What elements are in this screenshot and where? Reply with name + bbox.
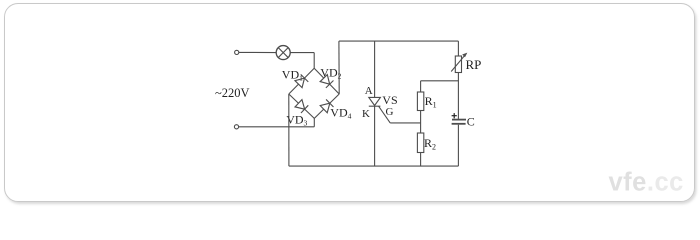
label R2 xyxy=(424,136,436,152)
wire: lamp to bridge top vertex xyxy=(290,53,314,69)
label VD4 xyxy=(330,105,351,120)
terminal: AC input bottom xyxy=(234,125,238,129)
terminal: AC input top xyxy=(235,50,239,54)
wire: gate to R1/R2 junction xyxy=(390,122,420,124)
label VD3 xyxy=(286,112,307,127)
wire: RP bottom to C top xyxy=(457,73,459,119)
wire: bridge bottom vertex stub xyxy=(313,118,315,126)
resistor R2 xyxy=(417,133,423,153)
label K (cathode) xyxy=(362,108,370,120)
wire: R1 top lead xyxy=(420,81,422,92)
wire: bottom terminal to bridge bottom vertex xyxy=(239,126,315,128)
diode VD1 (bridge left-top arm) xyxy=(289,68,314,94)
label C xyxy=(467,115,475,129)
label RP xyxy=(466,57,482,72)
thyristor VS xyxy=(369,97,390,123)
label VS xyxy=(382,93,397,107)
wire: bottom rail xyxy=(289,165,459,167)
wire: top rail xyxy=(339,40,459,42)
wire: C bottom to bottom rail xyxy=(457,125,459,166)
wire: RP bottom node to R1 top xyxy=(421,80,459,82)
wire: VS cathode to bottom rail xyxy=(374,106,376,166)
label VD2 xyxy=(320,66,341,81)
wire: top terminal to lamp xyxy=(239,51,276,53)
wire: R1 bottom to junction xyxy=(420,111,422,134)
wire: top rail to VS anode xyxy=(374,41,376,97)
label A (anode) xyxy=(365,85,373,97)
wire: bridge left vertex (DC-) down to bottom rail xyxy=(288,94,290,166)
label G (gate) xyxy=(386,106,394,118)
label R1 xyxy=(425,94,437,110)
label VD1 xyxy=(282,68,303,83)
capacitor C xyxy=(452,120,466,124)
potentiometer RP xyxy=(451,53,467,73)
diode VD3 (bridge left-bottom arm) xyxy=(289,94,315,118)
label + (capacitor polarity) xyxy=(452,113,457,118)
wire: top rail to RP top xyxy=(457,41,459,56)
diode VD2 (bridge top-right arm) xyxy=(314,68,339,94)
lamp EL (circle with X) xyxy=(276,46,290,60)
diode VD4 (bridge bottom-right arm) xyxy=(314,94,339,118)
wire: bridge right vertex (DC+) up to top rail xyxy=(338,41,340,94)
wire: R2 bottom to bottom rail xyxy=(420,153,422,167)
label ~220V xyxy=(215,86,250,100)
resistor R1 xyxy=(417,92,423,111)
